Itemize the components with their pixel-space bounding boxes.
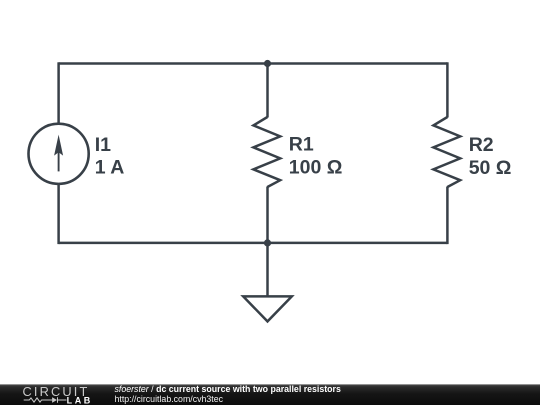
wire ground stub: [266, 243, 269, 296]
wire middle vertical lower: [266, 187, 269, 243]
svg-text:LAB: LAB: [67, 395, 93, 405]
svg-text:R2: R2: [469, 134, 494, 156]
wire top horizontal: [59, 62, 448, 65]
resistor R1: [253, 117, 280, 187]
svg-text:1 A: 1 A: [95, 157, 125, 179]
wire middle vertical upper: [266, 64, 269, 118]
svg-text:sfoerster / dc current source: sfoerster / dc current source with two p…: [115, 384, 341, 394]
svg-text:I1: I1: [95, 134, 111, 156]
wire left vertical upper: [57, 62, 60, 125]
logo symbol zigzag and diode: [24, 397, 67, 402]
wire bottom horizontal: [59, 242, 448, 245]
wire right vertical lower: [446, 187, 449, 245]
svg-text:100 Ω: 100 Ω: [289, 157, 343, 179]
wire left vertical lower: [57, 183, 60, 245]
current source I1: [28, 124, 88, 184]
resistor R2: [433, 117, 460, 187]
svg-text:R1: R1: [289, 134, 314, 156]
svg-text:http://circuitlab.com/cvh3tec: http://circuitlab.com/cvh3tec: [115, 394, 224, 404]
wire right vertical upper: [446, 62, 449, 117]
node top junction: [264, 60, 271, 67]
node bottom junction: [264, 239, 271, 246]
ground: [243, 296, 292, 321]
footer bar: [0, 384, 540, 405]
svg-text:50 Ω: 50 Ω: [469, 157, 512, 179]
